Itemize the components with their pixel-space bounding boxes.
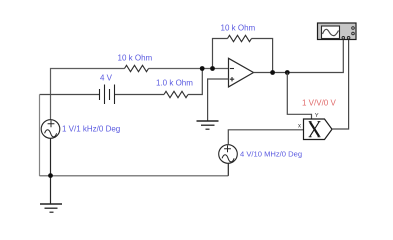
junction dot minus node a: [200, 66, 205, 71]
wire opamp plus input to ground: [208, 79, 229, 121]
wire opamp output to scope channel A: [254, 40, 344, 73]
op-amp minus symbol: [230, 68, 234, 70]
svg-text:10 k Ohm: 10 k Ohm: [221, 24, 256, 33]
svg-text:1 V/1 kHz/0 Deg: 1 V/1 kHz/0 Deg: [62, 124, 120, 133]
wire feedback left branch: [213, 39, 228, 69]
oscilloscope XSC1: [318, 23, 357, 40]
junction dot output / multiplier branch: [285, 70, 290, 75]
wire battery row right to R2: [115, 94, 165, 96]
svg-text:1.0 k Ohm: 1.0 k Ohm: [156, 79, 193, 88]
wire V3 bottom lead: [227, 163, 229, 176]
svg-text:1 V/V/0 V: 1 V/V/0 V: [302, 98, 336, 107]
op-amp plus symbol: [230, 77, 234, 81]
wire R2 to minus node: [188, 69, 202, 95]
wire battery row left: [40, 94, 100, 96]
svg-text:4 V: 4 V: [100, 73, 113, 82]
source V1 sine 1V 1kHz: [41, 120, 60, 139]
source V3 sine carrier 4V 10MHz: [219, 145, 238, 164]
resistor R3 10 k Ohm feedback: [228, 35, 252, 41]
junction dot ground net / V1: [48, 173, 53, 178]
wire V3 top lead to multiplier X input: [228, 130, 303, 145]
op-amp U1: [229, 58, 254, 87]
wire V1 top lead up and right to R1: [51, 69, 125, 120]
resistor R1 10 k Ohm: [125, 65, 149, 71]
resistor R2 1.0 k Ohm: [164, 91, 188, 97]
ground GND1: [40, 204, 62, 212]
wire R1 to opamp minus input: [149, 68, 229, 70]
battery V2 4V: [100, 85, 115, 105]
wire feedback right branch: [252, 39, 273, 73]
wire bottom ground net: [40, 175, 229, 177]
wire V1 bottom lead to ground: [50, 138, 52, 204]
multiplier A1 body: [304, 119, 333, 140]
wire left vertical battery to ground net: [39, 95, 41, 176]
junction dot output / feedback: [270, 70, 275, 75]
ground GND2 under op-amp: [197, 121, 219, 129]
junction dot minus node b: [210, 66, 215, 71]
svg-text:Y: Y: [315, 113, 319, 119]
svg-text:x: x: [298, 124, 301, 130]
svg-text:4 V/10 MHz/0 Deg: 4 V/10 MHz/0 Deg: [240, 149, 302, 158]
wire output node to multiplier Y input: [287, 73, 311, 120]
wire multiplier output to scope channel B: [332, 40, 349, 130]
multiplier X glyph: [309, 122, 321, 137]
svg-text:10 k Ohm: 10 k Ohm: [118, 53, 153, 62]
